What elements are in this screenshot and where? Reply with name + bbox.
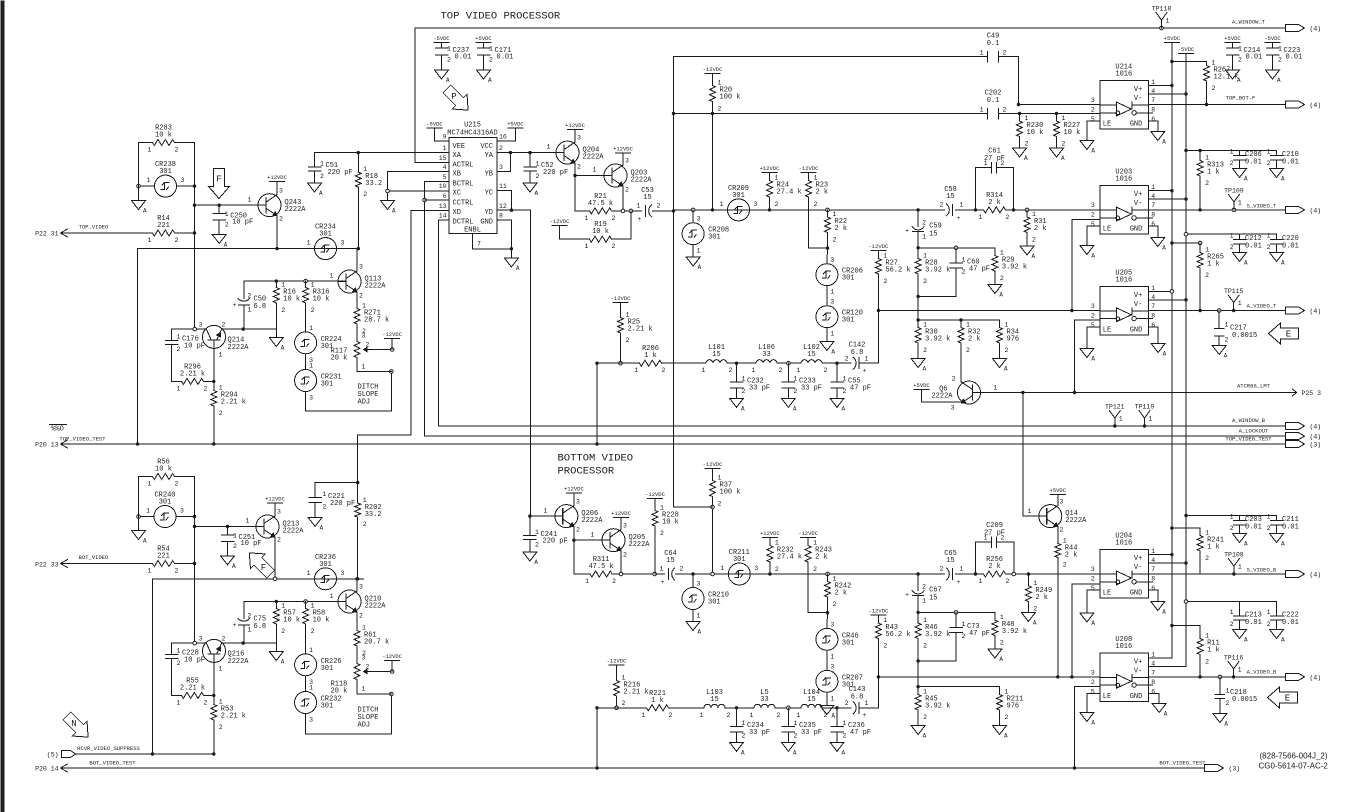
svg-text:2: 2 (323, 504, 327, 511)
connector (5) flag (62, 751, 76, 758)
testpoint TP115 (1233, 303, 1235, 311)
transistor Q113 (338, 270, 361, 293)
svg-text:56.2 k: 56.2 k (885, 631, 910, 639)
transistor Q204 (556, 141, 579, 164)
power +5VDC Q6 (914, 389, 929, 391)
capacitor C236 (836, 708, 838, 727)
svg-text:2: 2 (1225, 337, 1229, 344)
svg-text:+12VDC: +12VDC (760, 165, 781, 172)
capacitor C203 (1239, 516, 1241, 521)
svg-text:1: 1 (1226, 688, 1230, 695)
svg-text:P20 14: P20 14 (35, 766, 59, 773)
resistor R228 (654, 499, 656, 511)
wire CCTRL pin 6 (429, 199, 449, 201)
svg-text:XD: XD (453, 209, 461, 217)
svg-text:100 k: 100 k (720, 489, 741, 497)
svg-text:TP108: TP108 (1224, 552, 1244, 559)
svg-text:+5VDC: +5VDC (1050, 487, 1067, 494)
svg-text:A: A (516, 265, 520, 272)
svg-text:-12VDC: -12VDC (382, 653, 403, 660)
svg-text:3: 3 (1091, 97, 1095, 104)
svg-text:1: 1 (979, 214, 983, 221)
svg-text:2: 2 (1267, 244, 1271, 251)
svg-text:0.01: 0.01 (1282, 619, 1299, 627)
svg-text:+5VDC: +5VDC (507, 121, 524, 128)
capacitor C53 (645, 205, 647, 216)
svg-text:TOP_VIDEO_TEST: TOP_VIDEO_TEST (1225, 436, 1272, 443)
svg-text:-12VDC: -12VDC (703, 461, 724, 468)
svg-text:27.4 k: 27.4 k (777, 554, 802, 562)
svg-text:2: 2 (1205, 555, 1209, 562)
svg-text:2: 2 (366, 342, 370, 349)
svg-text:1: 1 (830, 331, 834, 338)
svg-text:1: 1 (591, 532, 595, 539)
svg-text:2: 2 (281, 307, 285, 314)
resistor R296 (172, 380, 182, 382)
svg-text:2: 2 (843, 388, 847, 395)
svg-text:-5VDC: -5VDC (1264, 35, 1281, 42)
diode CR120 (826, 286, 828, 306)
svg-text:1: 1 (660, 505, 664, 512)
svg-text:VEE: VEE (453, 143, 466, 151)
wire Q206 emitter to Q205 base (573, 527, 575, 574)
svg-text:3: 3 (754, 201, 758, 208)
svg-text:3: 3 (359, 584, 363, 591)
svg-text:2: 2 (923, 714, 927, 721)
svg-text:+12VDC: +12VDC (611, 510, 632, 517)
wire U203 V+ pin1 (1148, 190, 1172, 192)
svg-text:0.01: 0.01 (1245, 243, 1262, 251)
IC U204 (1100, 550, 1149, 599)
svg-text:301: 301 (708, 599, 721, 607)
resistor R19 (560, 238, 590, 240)
wire C221 input node (315, 482, 358, 484)
wire Q205 emitter (620, 551, 622, 574)
svg-text:2: 2 (1267, 621, 1271, 628)
svg-text:TOP_VIDEO: TOP_VIDEO (79, 224, 109, 231)
wire R265 supply stub (1172, 242, 1200, 244)
svg-text:A: A (446, 77, 450, 84)
svg-text:5: 5 (1091, 116, 1095, 123)
wire Q113 emitter (356, 292, 358, 309)
svg-text:2: 2 (225, 222, 229, 229)
svg-text:LE: LE (1103, 693, 1111, 701)
svg-text:301: 301 (321, 665, 334, 673)
svg-text:10 k: 10 k (155, 466, 172, 474)
wire BOT_VIDEO_TEST line (61, 767, 1205, 769)
svg-text:V+: V+ (1134, 555, 1142, 563)
resistor R20 (705, 73, 720, 75)
capacitor C235 (787, 708, 789, 727)
big arrow N (59, 708, 95, 744)
resistor R241 (1172, 527, 1200, 529)
wire U203 LE pin5 (1087, 225, 1100, 227)
wire C142 riser to A line (877, 311, 879, 364)
svg-text:2.21 k: 2.21 k (221, 713, 246, 721)
wire U204 pin2 feedback (1072, 583, 1100, 585)
power -5VDC U215 VEE pin 9 (435, 140, 449, 142)
svg-text:A: A (698, 264, 702, 271)
svg-text:2: 2 (1230, 525, 1234, 532)
svg-text:8: 8 (1151, 312, 1155, 319)
resistor R27 (871, 250, 886, 252)
svg-text:1016: 1016 (1115, 276, 1132, 284)
svg-text:A: A (1162, 245, 1166, 252)
wire R11 supply stub (1172, 625, 1200, 627)
svg-text:1: 1 (830, 289, 834, 296)
svg-text:15: 15 (929, 231, 937, 239)
svg-text:1: 1 (1005, 322, 1009, 329)
testpoint TP109 (1233, 202, 1235, 210)
resistor R230 (1019, 114, 1021, 122)
svg-text:1: 1 (311, 603, 315, 610)
svg-text:2: 2 (1000, 275, 1004, 282)
svg-text:11: 11 (499, 183, 507, 190)
svg-text:1: 1 (320, 161, 324, 168)
svg-text:2: 2 (845, 700, 849, 707)
resistor R243 (801, 537, 816, 539)
svg-text:1: 1 (1033, 580, 1037, 587)
resistor R271 (354, 309, 360, 325)
wire DCTRL pin 14 vertical (439, 219, 449, 221)
svg-text:2: 2 (576, 527, 580, 534)
svg-text:14: 14 (439, 213, 447, 220)
svg-text:15: 15 (643, 194, 651, 202)
wire Q6 collector to R32 (960, 381, 962, 384)
svg-text:2: 2 (1001, 160, 1005, 167)
svg-text:2: 2 (922, 220, 926, 227)
svg-text:1: 1 (994, 385, 998, 392)
power -12VDC R25 (613, 302, 628, 304)
svg-text:1: 1 (1238, 199, 1242, 206)
wire Q216 base down (213, 663, 215, 705)
svg-text:3: 3 (623, 523, 627, 530)
svg-text:2: 2 (1205, 272, 1209, 279)
svg-text:F: F (216, 175, 221, 185)
svg-text:A: A (1244, 176, 1248, 183)
svg-text:5: 5 (443, 174, 447, 181)
capacitor C67 (917, 574, 919, 591)
inductor L104 (801, 704, 822, 707)
transistor Q6 rotated (958, 381, 981, 404)
svg-text:1: 1 (813, 540, 817, 547)
svg-text:3: 3 (1091, 566, 1095, 573)
svg-text:15: 15 (946, 557, 954, 565)
svg-text:0.01: 0.01 (1286, 54, 1303, 62)
svg-text:0.01: 0.01 (1282, 159, 1299, 167)
svg-text:2: 2 (883, 278, 887, 285)
svg-text:ACTRL: ACTRL (453, 162, 474, 170)
svg-text:10 pF: 10 pF (184, 657, 205, 665)
svg-text:A: A (281, 659, 285, 666)
svg-text:10 k: 10 k (283, 296, 300, 304)
svg-text:1: 1 (979, 578, 983, 585)
svg-text:V+: V+ (1134, 191, 1142, 199)
svg-text:ATCR86_LMT: ATCR86_LMT (1237, 383, 1271, 390)
svg-text:1: 1 (148, 237, 152, 244)
svg-text:2: 2 (577, 164, 581, 171)
svg-text:1: 1 (843, 720, 847, 727)
svg-text:TP121: TP121 (1105, 404, 1125, 411)
svg-text:TP119: TP119 (1135, 404, 1155, 411)
svg-text:33.2: 33.2 (365, 180, 382, 188)
svg-text:2: 2 (222, 322, 226, 329)
svg-text:A: A (535, 190, 539, 197)
svg-text:1: 1 (1151, 651, 1155, 658)
svg-text:1: 1 (635, 367, 639, 374)
resistor R11 (1199, 626, 1201, 639)
svg-text:6: 6 (443, 193, 447, 200)
svg-text:15: 15 (807, 696, 815, 704)
svg-text:1: 1 (984, 160, 988, 167)
wire R45 bank line (918, 686, 999, 688)
svg-text:+5VDC: +5VDC (1224, 35, 1241, 42)
svg-text:2: 2 (499, 145, 503, 152)
svg-text:28.7 k: 28.7 k (364, 317, 389, 325)
svg-text:1: 1 (702, 367, 706, 374)
power -12VDC R19 (552, 225, 567, 227)
svg-text:2: 2 (1205, 659, 1209, 666)
svg-text:E: E (1285, 694, 1290, 704)
svg-text:BOT_VIDEO_TEST: BOT_VIDEO_TEST (89, 760, 136, 767)
svg-text:3: 3 (1091, 303, 1095, 310)
svg-text:LE: LE (1103, 226, 1111, 234)
svg-text:1: 1 (362, 303, 366, 310)
resistor R23 (801, 172, 816, 174)
svg-text:301: 301 (842, 275, 855, 283)
wire clamp filter node line bottom (918, 611, 995, 613)
wire U204 GND pin6 (1148, 589, 1158, 591)
svg-text:2: 2 (222, 636, 226, 643)
svg-text:1: 1 (544, 508, 548, 515)
wire ATCR86 vertical to Q14 (1022, 393, 1024, 517)
svg-text:2: 2 (1003, 107, 1007, 114)
wire ladder line bottom (669, 707, 705, 709)
power +12VDC Q213 (268, 502, 283, 504)
svg-text:A: A (1281, 541, 1285, 548)
power +12VDC Q204 (568, 129, 583, 131)
svg-text:A: A (1224, 353, 1228, 360)
svg-text:47 pF: 47 pF (850, 385, 871, 393)
svg-text:(3): (3) (1229, 766, 1241, 773)
resistor R265 (1199, 243, 1201, 253)
svg-text:2: 2 (742, 733, 746, 740)
svg-text:1: 1 (626, 312, 630, 319)
svg-text:2: 2 (718, 106, 722, 113)
svg-text:1: 1 (797, 712, 801, 719)
potentiometer R118 (356, 646, 358, 664)
svg-text:+: + (863, 712, 867, 719)
wire XC pin 10 (388, 190, 449, 192)
svg-text:2: 2 (612, 578, 616, 585)
svg-text:1: 1 (1119, 416, 1123, 423)
svg-text:RCVR_VIDEO_SUPPRESS: RCVR_VIDEO_SUPPRESS (77, 745, 140, 752)
resistor R54 (139, 563, 153, 565)
wire Q216 collector line (172, 642, 207, 644)
svg-text:-12VDC: -12VDC (645, 491, 666, 498)
svg-text:1: 1 (177, 648, 181, 655)
svg-text:0.01: 0.01 (455, 54, 472, 62)
svg-text:2: 2 (625, 187, 629, 194)
wire feedback vertical x673 (673, 57, 675, 508)
wire ladder line (662, 362, 707, 364)
capacitor C214 (1225, 42, 1240, 44)
svg-text:3: 3 (181, 177, 185, 184)
svg-text:(828-7566-004J_2): (828-7566-004J_2) (1260, 752, 1328, 761)
IC U203 (1100, 186, 1149, 235)
svg-text:220 pF: 220 pF (543, 538, 568, 546)
svg-text:2: 2 (833, 237, 837, 244)
svg-text:2: 2 (1000, 640, 1004, 647)
svg-text:0.01: 0.01 (1245, 159, 1262, 167)
svg-text:1: 1 (1267, 514, 1271, 521)
svg-text:C59: C59 (929, 223, 942, 231)
svg-text:2: 2 (281, 628, 285, 635)
resistor R61 (354, 631, 360, 647)
wire Q214 collector line (172, 328, 207, 330)
svg-text:2: 2 (535, 542, 539, 549)
svg-text:3: 3 (951, 405, 955, 412)
svg-text:10 pF: 10 pF (241, 540, 262, 548)
svg-text:A: A (1281, 637, 1285, 644)
IC U214 (1100, 81, 1149, 130)
svg-text:2: 2 (777, 712, 781, 719)
svg-text:+: + (638, 216, 642, 223)
wire Q203 emitter (622, 186, 624, 211)
svg-text:1: 1 (148, 568, 152, 575)
svg-text:976: 976 (1007, 703, 1020, 711)
svg-text:C67: C67 (929, 587, 942, 595)
svg-text:1: 1 (1225, 322, 1229, 329)
svg-text:A: A (1162, 609, 1166, 616)
svg-text:2: 2 (311, 307, 315, 314)
svg-text:10 pF: 10 pF (184, 343, 205, 351)
svg-text:1: 1 (1032, 211, 1036, 218)
svg-text:16: 16 (499, 134, 507, 141)
svg-text:1: 1 (1000, 250, 1004, 257)
svg-text:2: 2 (1006, 214, 1010, 221)
svg-text:1: 1 (697, 248, 701, 255)
svg-text:1: 1 (219, 385, 223, 392)
svg-text:10: 10 (439, 183, 447, 190)
svg-text:1: 1 (330, 273, 334, 280)
capacitor C234 (736, 708, 738, 727)
svg-text:2222A: 2222A (629, 541, 651, 549)
svg-text:2: 2 (1025, 141, 1029, 148)
svg-text:1: 1 (363, 166, 367, 173)
svg-text:A_WINDOW_T: A_WINDOW_T (1232, 19, 1266, 26)
svg-text:-12VDC: -12VDC (799, 165, 820, 172)
capacitor C206 (1239, 151, 1241, 156)
svg-text:1: 1 (219, 666, 223, 673)
svg-text:0.01: 0.01 (1282, 243, 1299, 251)
svg-text:1: 1 (962, 621, 966, 628)
resistor R206 (621, 362, 640, 364)
svg-text:A: A (1004, 366, 1008, 373)
svg-text:5: 5 (1091, 221, 1095, 228)
svg-text:1: 1 (1238, 46, 1242, 53)
svg-text:-5VDC: -5VDC (433, 35, 450, 42)
svg-text:3: 3 (576, 499, 580, 506)
svg-text:10 k: 10 k (313, 617, 330, 625)
svg-text:+: + (905, 228, 909, 235)
svg-text:V-: V- (1134, 95, 1142, 103)
svg-text:2 k: 2 k (1065, 552, 1078, 560)
svg-text:301: 301 (842, 639, 855, 647)
resistor R46 (917, 612, 919, 623)
svg-text:2: 2 (489, 57, 493, 64)
svg-text:S_VIDEO_B: S_VIDEO_B (1247, 567, 1277, 574)
wire RCVR video suppress line (76, 753, 214, 755)
svg-text:+12VDC: +12VDC (267, 174, 288, 181)
wire Q210 collector to video line (356, 579, 358, 591)
wire U203 pin7 S_VIDEO_T output (1148, 209, 1285, 211)
svg-text:3.92 k: 3.92 k (925, 631, 950, 639)
page left border strip (1, 1, 5, 812)
power +5VDC Q14 (1050, 493, 1065, 495)
transistor Q205 (602, 529, 625, 552)
svg-text:(4): (4) (1310, 102, 1322, 109)
power -12VDC R228 (648, 498, 663, 500)
svg-text:0.01: 0.01 (1245, 619, 1262, 627)
svg-text:A: A (1091, 720, 1095, 727)
svg-text:1: 1 (593, 167, 597, 174)
svg-text:27.4 k: 27.4 k (777, 189, 802, 197)
wire clamp filter node line (918, 247, 995, 249)
svg-text:3: 3 (341, 240, 345, 247)
capacitor C176 (171, 329, 173, 340)
resistor R43 (871, 614, 886, 616)
svg-text:1: 1 (966, 322, 970, 329)
svg-text:V+: V+ (1134, 292, 1142, 300)
svg-text:A: A (143, 538, 147, 545)
svg-text:1: 1 (883, 617, 887, 624)
svg-text:7: 7 (1151, 97, 1155, 104)
svg-text:2: 2 (779, 367, 783, 374)
svg-text:3: 3 (830, 621, 834, 628)
svg-text:A: A (1091, 620, 1095, 627)
svg-text:15: 15 (439, 155, 447, 162)
svg-text:2: 2 (359, 613, 363, 620)
svg-text:1: 1 (309, 363, 313, 370)
testpoint TP118 (1161, 20, 1163, 28)
svg-text:2: 2 (940, 201, 944, 208)
svg-text:VCC: VCC (480, 143, 493, 151)
svg-text:7: 7 (1151, 566, 1155, 573)
svg-text:15: 15 (807, 351, 815, 359)
svg-text:1: 1 (309, 685, 313, 692)
diode CR210 (691, 572, 694, 575)
diode CR231 (305, 354, 307, 370)
transistor Q214 rotated (203, 325, 226, 348)
wire right node x194 (194, 143, 196, 330)
wire C203 bank line (1186, 515, 1277, 517)
wire U214 V- pin4 (1148, 93, 1186, 95)
capacitor C143 (853, 702, 856, 714)
wire Q113 base line (244, 280, 346, 282)
svg-text:P22 31: P22 31 (35, 231, 59, 238)
wire ENBL pin 7 and GND pin 8 to ground (472, 234, 474, 249)
svg-text:2: 2 (1267, 525, 1271, 532)
svg-text:15: 15 (946, 193, 954, 201)
capacitor C209 (975, 542, 977, 574)
svg-text:A: A (224, 242, 228, 249)
svg-text:0.1: 0.1 (987, 40, 1000, 48)
svg-text:(4): (4) (1310, 26, 1322, 33)
svg-text:1: 1 (443, 145, 447, 152)
wire A_WINDOW_B line (439, 425, 1286, 427)
wire R27 down to A line (877, 274, 879, 311)
